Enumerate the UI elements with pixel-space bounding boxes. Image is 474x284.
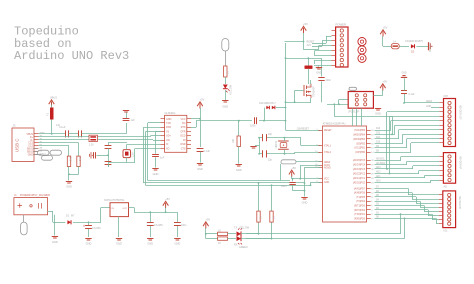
connector J3 USB-C	[12, 124, 47, 162]
wire RESET to fet	[286, 102, 312, 104]
svg-text:AD2: AD2	[376, 171, 381, 174]
wire 5v to reset vertical	[285, 41, 304, 43]
svg-text:YELLOW: YELLOW	[230, 84, 233, 95]
wire rxd long	[246, 233, 401, 235]
svg-text:VCC: VCC	[324, 179, 329, 181]
wire D7 to IOL	[375, 188, 409, 190]
svg-text:GND: GND	[116, 242, 122, 246]
svg-text:GND: GND	[166, 118, 172, 121]
test point capsule AREF	[281, 160, 296, 164]
svg-text:USBVCC: USBVCC	[430, 42, 432, 52]
wire fet gate	[295, 90, 304, 92]
wire D- run	[39, 139, 90, 141]
wire XI	[126, 144, 128, 149]
svg-text:GND: GND	[197, 167, 203, 171]
svg-text:GND: GND	[375, 112, 381, 116]
svg-text:GND: GND	[153, 172, 159, 176]
capacitor C2 22p	[259, 150, 273, 161]
wire icsp in	[327, 104, 348, 106]
wire 5v node	[286, 58, 322, 60]
power +5V leds	[203, 222, 209, 229]
wire avcc cap to gnd run	[293, 190, 305, 192]
connector JP2 ICSP	[348, 92, 373, 114]
svg-text:+5V: +5V	[165, 197, 170, 201]
wire icsp to mcu verts	[352, 108, 354, 126]
wire TXD rail	[147, 123, 149, 181]
svg-text:GND: GND	[147, 242, 153, 246]
capacitor C1 22p	[259, 133, 273, 141]
transistor T1 FDN340P	[304, 83, 316, 98]
varistor pack Z1	[89, 135, 98, 146]
wire AD1 to AD	[375, 177, 426, 179]
svg-text:(AIN0)PD6: (AIN0)PD6	[354, 192, 366, 195]
wire D9 to IOH	[375, 147, 408, 149]
wire gnd to ioh2	[431, 107, 439, 109]
svg-text:1K: 1K	[260, 216, 263, 219]
ground dtr resistor	[236, 165, 242, 167]
svg-text:AD0: AD0	[376, 180, 381, 183]
junction avcc a	[292, 178, 294, 180]
wire reg out	[129, 207, 135, 209]
junction vcc	[199, 118, 201, 120]
wire fuse to diode	[399, 46, 409, 48]
diode D2 CD1206	[405, 40, 423, 54]
capacitor C7 vbus series	[59, 126, 69, 137]
ground ch340 cap	[197, 164, 203, 166]
svg-text:XI: XI	[166, 143, 169, 146]
svg-text:GND: GND	[302, 201, 308, 205]
wire r to gnd dtr	[238, 147, 240, 164]
wire D4 to IOL	[375, 201, 421, 203]
junction gnd rail	[310, 184, 312, 186]
junction VBUS	[51, 133, 53, 135]
wire D12 to IOH	[375, 134, 396, 136]
wire fet drain	[310, 98, 312, 102]
power +5V rail	[163, 201, 169, 208]
svg-text:1K: 1K	[218, 230, 221, 233]
IC IC1 ATMEGA328P-PU	[315, 122, 374, 223]
svg-text:GREEN: GREEN	[239, 246, 248, 249]
svg-text:(ICP)PB0: (ICP)PB0	[355, 152, 365, 154]
svg-text:CH340G: CH340G	[165, 111, 176, 115]
resistor R CC2 5k1	[77, 156, 82, 166]
connector J1 power jack	[14, 194, 51, 215]
wire led row1	[206, 233, 218, 235]
wire vbus mid	[69, 133, 79, 135]
wire D0 to IOL	[375, 218, 437, 220]
wire to fuse	[383, 46, 391, 48]
junction 5v corner	[303, 41, 305, 43]
capacitor C13 vbus series 2	[56, 124, 82, 137]
capacitor C14 ch340 vbus	[123, 119, 136, 123]
svg-text:GND: GND	[236, 168, 242, 172]
svg-text:IOL: IOL	[444, 230, 449, 233]
wire txd long	[246, 238, 405, 240]
wire 5v down	[382, 36, 384, 46]
svg-text:1N4148DO35-7: 1N4148DO35-7	[259, 102, 276, 105]
svg-text:22p: 22p	[268, 133, 273, 136]
wire scl to ioh3	[386, 112, 388, 169]
ground crystal sideways	[89, 152, 91, 158]
svg-text:AD1: AD1	[376, 175, 381, 178]
wire diode out	[417, 46, 429, 48]
wire DTR run	[196, 120, 252, 122]
svg-text:(RXD)PD0: (RXD)PD0	[354, 218, 366, 220]
ground header	[318, 66, 320, 67]
svg-text:AREF: AREF	[324, 161, 331, 164]
svg-text:+5V: +5V	[291, 166, 296, 170]
ground c3	[147, 239, 153, 241]
wire aref net	[296, 161, 320, 163]
wire aref to ioh1	[404, 102, 439, 104]
svg-text:D13: D13	[376, 128, 381, 130]
wire cap to gnd	[200, 152, 202, 163]
wire v3 drop	[155, 132, 157, 153]
capacitor C reset 100n	[318, 58, 324, 102]
regulator U2 NCP1117	[104, 199, 129, 217]
wire D13 to IOH	[375, 130, 392, 132]
svg-text:1uF: 1uF	[56, 124, 61, 127]
svg-text:XTAL2: XTAL2	[324, 151, 332, 154]
capacitor C aref 100n	[404, 94, 406, 103]
svg-text:2.2K: 2.2K	[89, 145, 94, 147]
wire icsp miso drop	[392, 117, 394, 135]
svg-text:TX: TX	[234, 227, 237, 230]
svg-text:J16/RESET: J16/RESET	[297, 127, 310, 130]
wire rail y180	[148, 180, 290, 182]
wire r1 to led1	[228, 233, 237, 235]
svg-text:10K: 10K	[233, 138, 235, 143]
svg-text:D12: D12	[376, 133, 381, 135]
junction n1	[285, 57, 287, 59]
svg-text:GND: GND	[324, 182, 329, 184]
power +5V icsp	[380, 84, 386, 91]
LED L yellow	[223, 84, 233, 95]
svg-text:POWER: POWER	[336, 23, 347, 27]
wire gnd pin	[314, 60, 332, 62]
power +5V header	[301, 26, 307, 33]
svg-text:(SS)PB2: (SS)PB2	[356, 143, 366, 145]
wire D11 to IOH	[375, 138, 400, 140]
wire J1 out	[48, 211, 53, 213]
svg-text:YELLOW: YELLOW	[239, 227, 250, 230]
svg-text:AGND: AGND	[324, 166, 331, 169]
ground avcc	[301, 198, 307, 200]
polyfuse F2	[391, 41, 399, 49]
svg-text:47u/25V: 47u/25V	[154, 224, 163, 227]
wire led2 out	[241, 238, 272, 240]
wire rxtx vertical 2	[271, 185, 273, 211]
svg-text:HEADER-6P: HEADER-6P	[459, 156, 462, 170]
svg-text:1uF: 1uF	[160, 157, 165, 160]
svg-text:3V3: 3V3	[307, 44, 312, 47]
svg-text:FDN340P: FDN340P	[313, 86, 316, 97]
wire VBUS run	[39, 133, 66, 135]
svg-text:GND: GND	[401, 73, 406, 75]
wire D8 to IOH	[375, 152, 412, 154]
svg-text:VBUS: VBUS	[50, 96, 57, 100]
svg-text:1K: 1K	[227, 71, 230, 74]
wire header net d	[315, 50, 332, 52]
svg-text:0.1uF: 0.1uF	[204, 150, 211, 153]
wire icsp 5v stem	[382, 90, 384, 95]
ground J1	[54, 215, 56, 236]
svg-text:47u/25V: 47u/25V	[92, 227, 101, 230]
wire vbus tail	[82, 133, 127, 135]
svg-text:100n: 100n	[181, 224, 187, 227]
svg-text:(T0)PD4: (T0)PD4	[356, 201, 365, 203]
connector JP6 IOH	[439, 95, 461, 147]
crystal Q1 12MHz	[123, 150, 135, 158]
wire rxtx vertical 1	[258, 183, 260, 211]
ground icsp	[375, 109, 381, 111]
junction reset cap node	[263, 120, 265, 122]
svg-text:AD4SDA: AD4SDA	[376, 162, 386, 165]
svg-text:RESET: RESET	[324, 130, 332, 132]
wire header net e	[315, 55, 332, 57]
capacitor C4 ch340 vcc	[197, 149, 211, 154]
resistor R11 led	[224, 66, 230, 77]
svg-text:CTS: CTS	[181, 148, 186, 151]
svg-text:GND: GND	[222, 105, 228, 109]
wire sda to ioh4	[389, 116, 391, 173]
wire D10 to IOH	[375, 143, 404, 145]
capacitor C8 xtal top	[105, 143, 112, 151]
wire led row2	[206, 238, 218, 240]
svg-text:1K: 1K	[273, 216, 276, 219]
connector JP power header	[332, 23, 349, 68]
svg-text:GND: GND	[175, 242, 181, 246]
junction reset 102	[285, 101, 287, 103]
svg-text:AD: AD	[444, 186, 448, 189]
svg-text:GND: GND	[316, 71, 322, 75]
svg-text:1A: 1A	[393, 41, 396, 44]
svg-text:HEADER-8P: HEADER-8P	[458, 196, 461, 210]
svg-text:100n: 100n	[250, 125, 256, 128]
wire D5 to IOL	[375, 196, 417, 198]
wire CC1 run	[39, 142, 79, 144]
svg-text:USB C: USB C	[15, 139, 20, 152]
svg-text:XTAL1: XTAL1	[324, 145, 332, 148]
junction dtr	[238, 120, 240, 122]
capacitor C5 v3	[152, 152, 159, 167]
svg-text:IOH: IOH	[444, 95, 449, 98]
wire to regulator	[100, 208, 102, 223]
svg-text:XO: XO	[166, 148, 170, 151]
shield capsule J1	[23, 215, 25, 222]
svg-text:(INT1)PD3: (INT1)PD3	[354, 206, 366, 208]
junction cc gnd	[68, 173, 70, 175]
wire rail y183	[143, 182, 304, 184]
svg-text:GND: GND	[28, 154, 34, 157]
svg-text:(ADC1)PC1: (ADC1)PC1	[353, 177, 366, 180]
resistor RN1 1M	[305, 66, 319, 70]
junction reset vert a	[285, 107, 287, 109]
wire diode left drop	[264, 108, 266, 121]
wire header net a	[312, 43, 326, 45]
wire dtr pulldown stub	[238, 121, 240, 136]
svg-text:D10: D10	[376, 142, 381, 144]
wire icsp bottom run	[334, 116, 392, 118]
wire RESET vertical main	[285, 43, 287, 130]
svg-text:RTS: RTS	[181, 126, 186, 129]
capacitor C3 47u	[147, 212, 163, 237]
resistor R dtr 10K	[233, 136, 241, 147]
junction aref cap	[403, 102, 405, 104]
junction xc1	[258, 137, 260, 139]
mount hole circles	[358, 38, 366, 63]
power flag VBUS arrow	[49, 100, 55, 107]
svg-text:(ADC0)PC0: (ADC0)PC0	[353, 181, 366, 184]
svg-text:100n: 100n	[281, 185, 287, 188]
capacitor C9 xtal bottom	[105, 159, 112, 167]
svg-text:TXD: TXD	[166, 122, 171, 125]
connector JP8 AD	[439, 153, 461, 189]
svg-text:RX: RX	[234, 244, 238, 247]
IC U1 CH340G	[161, 111, 192, 153]
resistor R3 pullup	[257, 211, 263, 222]
wire tp to resistor	[225, 51, 227, 66]
wire rail y186	[146, 185, 311, 187]
wire agnd vertical	[304, 167, 306, 196]
svg-text:NC: NC	[182, 122, 186, 125]
svg-text:ATMEGA328P-PU: ATMEGA328P-PU	[323, 122, 346, 126]
LED RX green	[234, 236, 248, 249]
resistor R1 tx	[218, 230, 228, 236]
junction pc1	[88, 221, 90, 223]
wire AD2 to AD	[375, 173, 420, 175]
wire rn1	[308, 58, 310, 65]
connector JP5 IOL	[439, 191, 461, 233]
svg-text:(MOSI)PB3: (MOSI)PB3	[353, 139, 365, 141]
wire vcc line	[292, 178, 321, 180]
svg-text:DTR: DTR	[181, 131, 186, 134]
ground CC resistors	[68, 174, 70, 180]
svg-text:(ADC4)PC4: (ADC4)PC4	[353, 164, 366, 167]
wire avcc pin link	[300, 165, 302, 179]
wire AD0 to AD	[375, 182, 432, 184]
wire xtal join	[259, 138, 261, 154]
junction xc2	[258, 153, 260, 155]
wire resistor bottoms	[68, 167, 70, 175]
svg-text:5K1: 5K1	[70, 156, 73, 161]
svg-text:+5V: +5V	[200, 98, 205, 102]
wire D6 to IOL	[375, 192, 413, 194]
wire icsp misc	[339, 99, 348, 101]
ESD suppressor capsule 1	[38, 150, 50, 155]
wire D2 to IOL	[375, 209, 429, 211]
junction gate	[294, 101, 296, 103]
wire AD5SCL to AD	[375, 160, 402, 162]
wire AD4SDA to AD	[375, 164, 408, 166]
svg-text:HEADER-10P: HEADER-10P	[459, 105, 462, 120]
svg-text:VCC: VCC	[180, 118, 185, 121]
svg-text:(AIN1)PD7: (AIN1)PD7	[354, 187, 366, 190]
svg-text:(TXD)PD1: (TXD)PD1	[354, 214, 365, 216]
svg-text:(T1)PD5: (T1)PD5	[356, 197, 365, 199]
svg-text:(SCK)PB5: (SCK)PB5	[354, 130, 365, 132]
svg-text:22p: 22p	[268, 159, 273, 162]
svg-text:AD3: AD3	[376, 166, 381, 169]
wire DTR from ch340	[196, 121, 198, 128]
ESD suppressor capsule 2	[50, 150, 62, 155]
capacitor usbvcc	[429, 42, 433, 52]
wire cap to reset	[259, 120, 286, 122]
wire aux rail	[145, 132, 147, 186]
wire shield stub	[33, 151, 38, 153]
svg-text:Arduino UNO Rev3: Arduino UNO Rev3	[14, 49, 129, 63]
wire aref cap up	[404, 78, 406, 90]
svg-text:UD+: UD+	[166, 135, 171, 138]
svg-text:JP2/ICSP: JP2/ICSP	[348, 110, 360, 114]
junction 5v rail a	[149, 211, 151, 213]
wire header net c	[304, 49, 319, 51]
svg-text:POWERSUPPLY_DC21MMX: POWERSUPPLY_DC21MMX	[20, 195, 51, 197]
diode pair D3 reset	[259, 102, 276, 109]
wire led to gnd	[225, 90, 227, 100]
svg-text:OUT: OUT	[122, 208, 127, 210]
svg-text:GND: GND	[426, 106, 431, 108]
diode D1 M7	[66, 215, 75, 225]
svg-text:AREF: AREF	[426, 100, 433, 103]
svg-text:NCP1117ST50T3G: NCP1117ST50T3G	[104, 199, 125, 202]
svg-text:GND: GND	[86, 242, 92, 246]
wire XO	[126, 158, 128, 163]
wire diode right	[276, 107, 286, 109]
svg-text:(MISO)PB4: (MISO)PB4	[353, 134, 365, 136]
wire xtal left verticals	[108, 151, 110, 159]
wire gnd pin link	[310, 182, 312, 185]
power +5V avcc	[289, 170, 295, 177]
svg-text:CD1206-S01575: CD1206-S01575	[405, 40, 423, 43]
test point capsule L	[222, 39, 229, 52]
ground aref inverted	[401, 76, 407, 78]
svg-text:5K1: 5K1	[79, 156, 82, 161]
ground c12	[174, 239, 180, 241]
wire d1 out	[73, 222, 101, 224]
wire vcc pin	[191, 118, 200, 120]
svg-text:+5V: +5V	[303, 22, 308, 26]
junction agnd 190	[304, 190, 306, 192]
wire reset to mcu	[286, 130, 321, 132]
LED TX yellow	[234, 227, 250, 237]
svg-text:(ADC5)PC5: (ADC5)PC5	[353, 159, 366, 162]
wire D3 to IOL	[375, 205, 425, 207]
ground led L	[222, 101, 228, 103]
svg-text:(ADC3)PC3: (ADC3)PC3	[353, 168, 366, 171]
junction xtal gnd	[107, 154, 109, 156]
wire led1 out	[241, 233, 259, 235]
junction avcc b	[299, 178, 301, 180]
junction reset vert b	[285, 120, 287, 122]
resistor R CC1 5k1	[67, 156, 72, 166]
wire avcc 5v stem	[291, 176, 293, 178]
resonator Y1 16MHz	[275, 140, 289, 149]
wire header net b	[312, 46, 322, 48]
ground above cap	[126, 113, 128, 119]
svg-text:DSR: DSR	[180, 143, 185, 146]
wire led feed	[205, 228, 207, 239]
svg-text:1uF: 1uF	[131, 119, 136, 122]
resistor R4 pullup	[270, 211, 276, 222]
resistor R2 rx	[218, 237, 228, 245]
svg-text:RI: RI	[183, 139, 186, 142]
power +5V ch340	[197, 102, 203, 109]
ground pc1	[85, 239, 91, 241]
junction agnd rail	[304, 182, 306, 184]
wire RXD rail	[143, 127, 145, 183]
wire D1 to IOL	[375, 214, 433, 216]
